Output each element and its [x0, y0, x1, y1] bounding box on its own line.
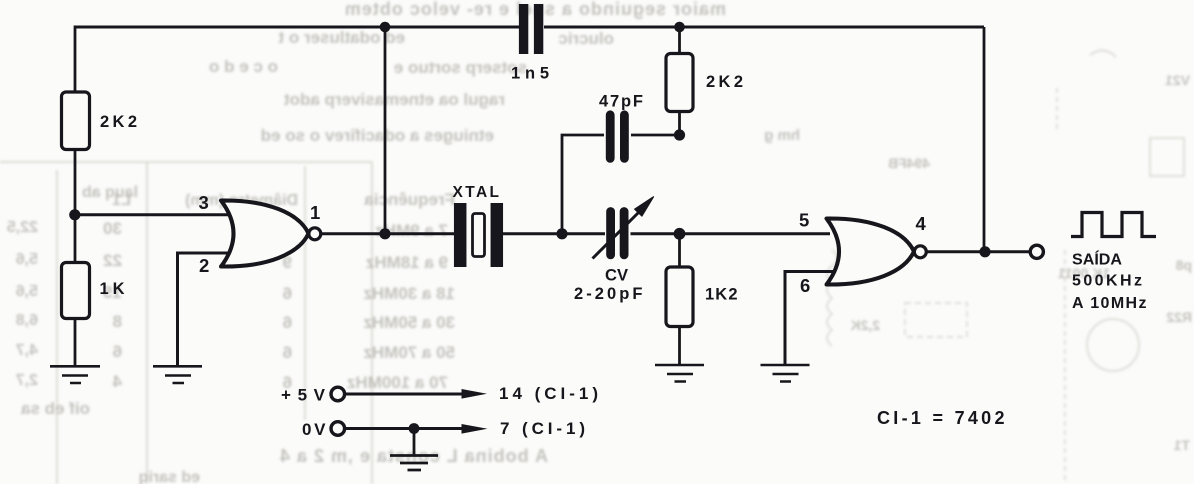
node junction output / feedback [979, 246, 990, 257]
svg-text:22,5: 22,5 [7, 219, 38, 236]
crystal XTAL plates [460, 203, 497, 267]
svg-text:494FB: 494FB [888, 155, 930, 171]
wire left branch middle lead [74, 150, 77, 264]
crystal XTAL element [473, 214, 485, 257]
node junction top rail left [380, 22, 391, 33]
wire U1B output [927, 250, 1031, 253]
svg-text:CI-1 = 7402: CI-1 = 7402 [877, 408, 1005, 428]
svg-text:47pF: 47pF [599, 93, 643, 111]
wire 1K2 to ground [678, 327, 681, 366]
svg-text:sotserp sortuo e: sotserp sortuo e [394, 58, 527, 77]
node junction 0V ground tap [409, 423, 420, 434]
svg-text:6: 6 [283, 313, 292, 332]
wire pin 2 input [178, 253, 233, 366]
wire main signal line (gate1 to XTAL handled above); XTAL to CV [503, 232, 605, 235]
svg-text:oif eb sa: oif eb sa [20, 399, 90, 418]
svg-text:o c e d o: o c e d o [209, 57, 278, 76]
svg-text:18 a 30MHz: 18 a 30MHz [363, 284, 455, 303]
svg-text:1n5: 1n5 [511, 65, 549, 83]
resistor 2K2 (right) [666, 54, 693, 112]
wire pin 3 input [75, 213, 232, 216]
terminal +5V circle [331, 387, 345, 401]
svg-text:14 (CI-1): 14 (CI-1) [499, 384, 598, 403]
svg-text:6: 6 [283, 284, 292, 303]
svg-text:6: 6 [800, 275, 810, 296]
node junction left (2K2/1K/pin3) [69, 209, 80, 220]
op-amp gate U1A NOR 1 body [221, 200, 309, 266]
svg-text:4: 4 [916, 213, 927, 234]
svg-text:7 (CI-1): 7 (CI-1) [500, 419, 585, 438]
wire 0V to arrow [345, 427, 465, 430]
svg-text:2,7: 2,7 [16, 372, 38, 389]
square wave symbol [1071, 213, 1156, 237]
wire feedback vertical left [384, 27, 387, 234]
svg-text:1K: 1K [100, 280, 125, 298]
node junction XTAL left / 47pF tap [556, 228, 567, 239]
wire top supply rail [75, 26, 984, 29]
terminal output circle [1030, 245, 1043, 258]
svg-text:30: 30 [103, 219, 122, 238]
wire pin 6 input [785, 272, 836, 366]
svg-text:50 a 70MHz: 50 a 70MHz [363, 343, 455, 362]
wire 1K to ground [74, 319, 77, 367]
svg-text:XTAL: XTAL [453, 184, 500, 201]
resistor 1K [62, 263, 90, 319]
wire top rail to 2K2 right [678, 27, 681, 54]
svg-text:2K2: 2K2 [100, 113, 137, 131]
wire left branch upper lead [74, 26, 77, 94]
svg-text:5: 5 [799, 210, 809, 231]
svg-text:T1: T1 [1173, 437, 1190, 453]
ground pin 2 [153, 366, 202, 383]
svg-text:70 a 100MHz: 70 a 100MHz [347, 373, 448, 392]
ground under 1K2 [655, 365, 704, 382]
ground pin 6 [761, 365, 810, 382]
arrow head +5V [462, 389, 488, 399]
arrow head 0V [462, 424, 488, 434]
resistor 1K2 [666, 267, 693, 327]
svg-text:5,6: 5,6 [16, 283, 38, 300]
svg-text:etniuges a odacifirev o so ed: etniuges a odacifirev o so ed [261, 126, 494, 145]
resistor 2K2 (left) [62, 92, 90, 150]
svg-text:2: 2 [199, 255, 209, 276]
wire feedback vertical right [983, 27, 986, 252]
op-amp gate U1B NOR 2 body [827, 218, 915, 284]
svg-text:4,7: 4,7 [16, 342, 38, 359]
capacitor 1n5 [524, 4, 539, 54]
svg-text:R22: R22 [1166, 309, 1192, 325]
gate U1B inversion bubble pin 4 [914, 246, 926, 258]
svg-text:6: 6 [113, 342, 122, 361]
svg-text:9 a 18MHz: 9 a 18MHz [366, 253, 448, 272]
svg-text:6: 6 [283, 343, 292, 362]
wire CV to gate 2 pin 5 [631, 232, 831, 235]
svg-text:2K2: 2K2 [706, 73, 743, 91]
svg-text:2,2K: 2,2K [850, 317, 880, 333]
svg-text:ragul oa etnemasiverp adot: ragul oa etnemasiverp adot [284, 90, 505, 109]
svg-text:1: 1 [310, 202, 320, 223]
svg-text:1K2: 1K2 [705, 286, 738, 304]
wire 0V tap to ground [413, 429, 416, 456]
svg-text:olucric: olucric [558, 29, 614, 48]
svg-text:5,6: 5,6 [16, 251, 38, 268]
capacitor CV trimmer plates [611, 212, 625, 255]
wire 2K2 right lower lead [678, 112, 681, 136]
svg-text:ed sariq: ed sariq [139, 469, 200, 484]
wire U1A output [321, 232, 457, 235]
svg-text:+5V: +5V [281, 386, 326, 405]
svg-text:8: 8 [113, 312, 122, 331]
wire +5V to arrow [345, 393, 465, 396]
ground under 1K [50, 366, 100, 383]
capacitor 47pF [610, 115, 624, 159]
wire junction to 1K2 [678, 234, 681, 268]
node junction 47pF / 2K2 [674, 129, 685, 140]
svg-text:3: 3 [199, 192, 209, 213]
svg-text:6,8: 6,8 [16, 312, 38, 329]
terminal 0V circle [331, 422, 345, 436]
gate U1A inversion bubble pin 1 [309, 228, 321, 240]
node junction top rail right [674, 22, 685, 33]
node junction on signal line (feedback tap) [379, 228, 390, 239]
svg-text:CV: CV [605, 267, 628, 285]
svg-text:500KHz: 500KHz [1072, 273, 1142, 290]
wire 47pF branch [562, 135, 680, 234]
svg-text:SAÍDA: SAÍDA [1072, 250, 1122, 269]
svg-text:Frequência: Frequência [364, 190, 455, 209]
svg-text:p8: p8 [1175, 257, 1192, 273]
node junction main line / 1K2 [674, 228, 686, 240]
svg-text:L1: L1 [112, 192, 131, 209]
svg-text:22: 22 [103, 251, 122, 270]
svg-text:V21: V21 [1165, 72, 1190, 88]
svg-text:hm g: hm g [764, 127, 800, 144]
svg-text:4: 4 [112, 372, 122, 391]
svg-text:30 a 50MHz: 30 a 50MHz [363, 313, 455, 332]
ground 0V [390, 456, 438, 471]
svg-text:0V: 0V [302, 420, 326, 439]
capacitor CV trimmer arrow [593, 211, 641, 259]
